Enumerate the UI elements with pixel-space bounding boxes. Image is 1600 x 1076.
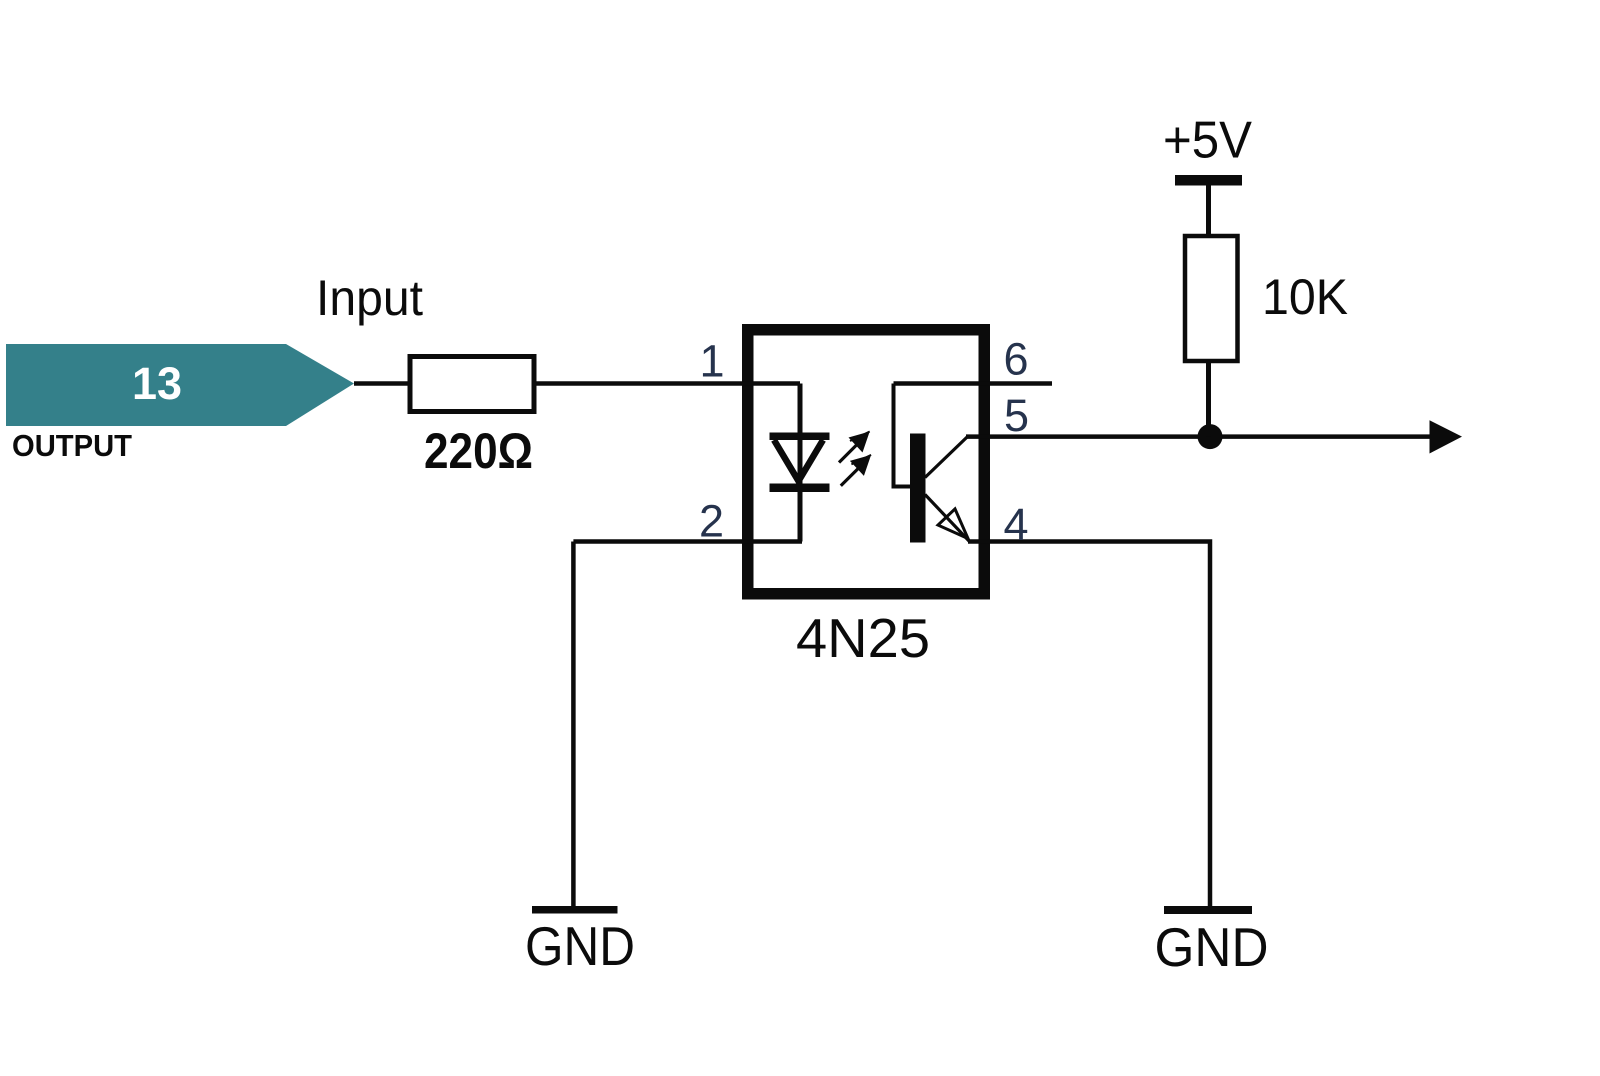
svg-text:2: 2 xyxy=(699,496,724,547)
LED D1 anode bar xyxy=(770,433,830,441)
pin header arrow 13 (teal) xyxy=(6,344,354,426)
svg-text:6: 6 xyxy=(1003,334,1028,385)
resistor R2 10K xyxy=(1185,236,1238,361)
svg-text:GND: GND xyxy=(1155,916,1269,978)
LED D1 cathode bar xyxy=(770,484,830,493)
wire: pin 5 output line xyxy=(966,434,1432,439)
ground symbol right xyxy=(1164,906,1252,914)
node: junction dot xyxy=(1198,424,1223,449)
output arrowhead xyxy=(1430,420,1463,453)
transistor Q1 base wire from pin 6 xyxy=(894,384,911,487)
transistor Q1 base bar xyxy=(910,434,926,543)
transistor Q1 emitter arrowhead xyxy=(938,509,968,539)
wire: pin 2 horizontal to left ground drop xyxy=(573,539,802,544)
wire: pin 4 to right ground xyxy=(968,542,1210,909)
transistor Q1 emitter line xyxy=(925,495,970,542)
svg-text:GND: GND xyxy=(525,915,635,977)
light arrow 2 xyxy=(841,455,871,486)
transistor Q1 collector line xyxy=(925,437,968,478)
LED D1 triangle xyxy=(774,440,823,481)
svg-text:1: 1 xyxy=(699,336,724,387)
ground symbol left xyxy=(532,906,618,914)
svg-text:Input: Input xyxy=(316,270,423,326)
wire: pin 6 out to the right xyxy=(894,381,1053,386)
light arrow 1 xyxy=(839,432,870,463)
wire: rail to resistor xyxy=(1206,185,1211,238)
wire: input pin13 to resistor to pin1 of 4N25 xyxy=(354,381,800,386)
svg-text:10K: 10K xyxy=(1262,269,1348,325)
wire: left ground vertical xyxy=(571,542,576,909)
+5V supply rail bar xyxy=(1175,175,1242,186)
svg-text:4N25: 4N25 xyxy=(796,607,930,669)
wire: resistor to node xyxy=(1206,360,1211,437)
svg-text:13: 13 xyxy=(132,358,182,409)
svg-text:5: 5 xyxy=(1004,390,1029,441)
svg-text:+5V: +5V xyxy=(1163,112,1252,170)
svg-text:220Ω: 220Ω xyxy=(424,423,533,479)
svg-text:4: 4 xyxy=(1003,499,1028,550)
opto-coupler U1 4N25 box xyxy=(748,330,985,594)
svg-text:OUTPUT: OUTPUT xyxy=(12,428,132,463)
resistor R1 220 ohm xyxy=(410,357,534,412)
wire: LED center drop inside box xyxy=(798,384,803,542)
